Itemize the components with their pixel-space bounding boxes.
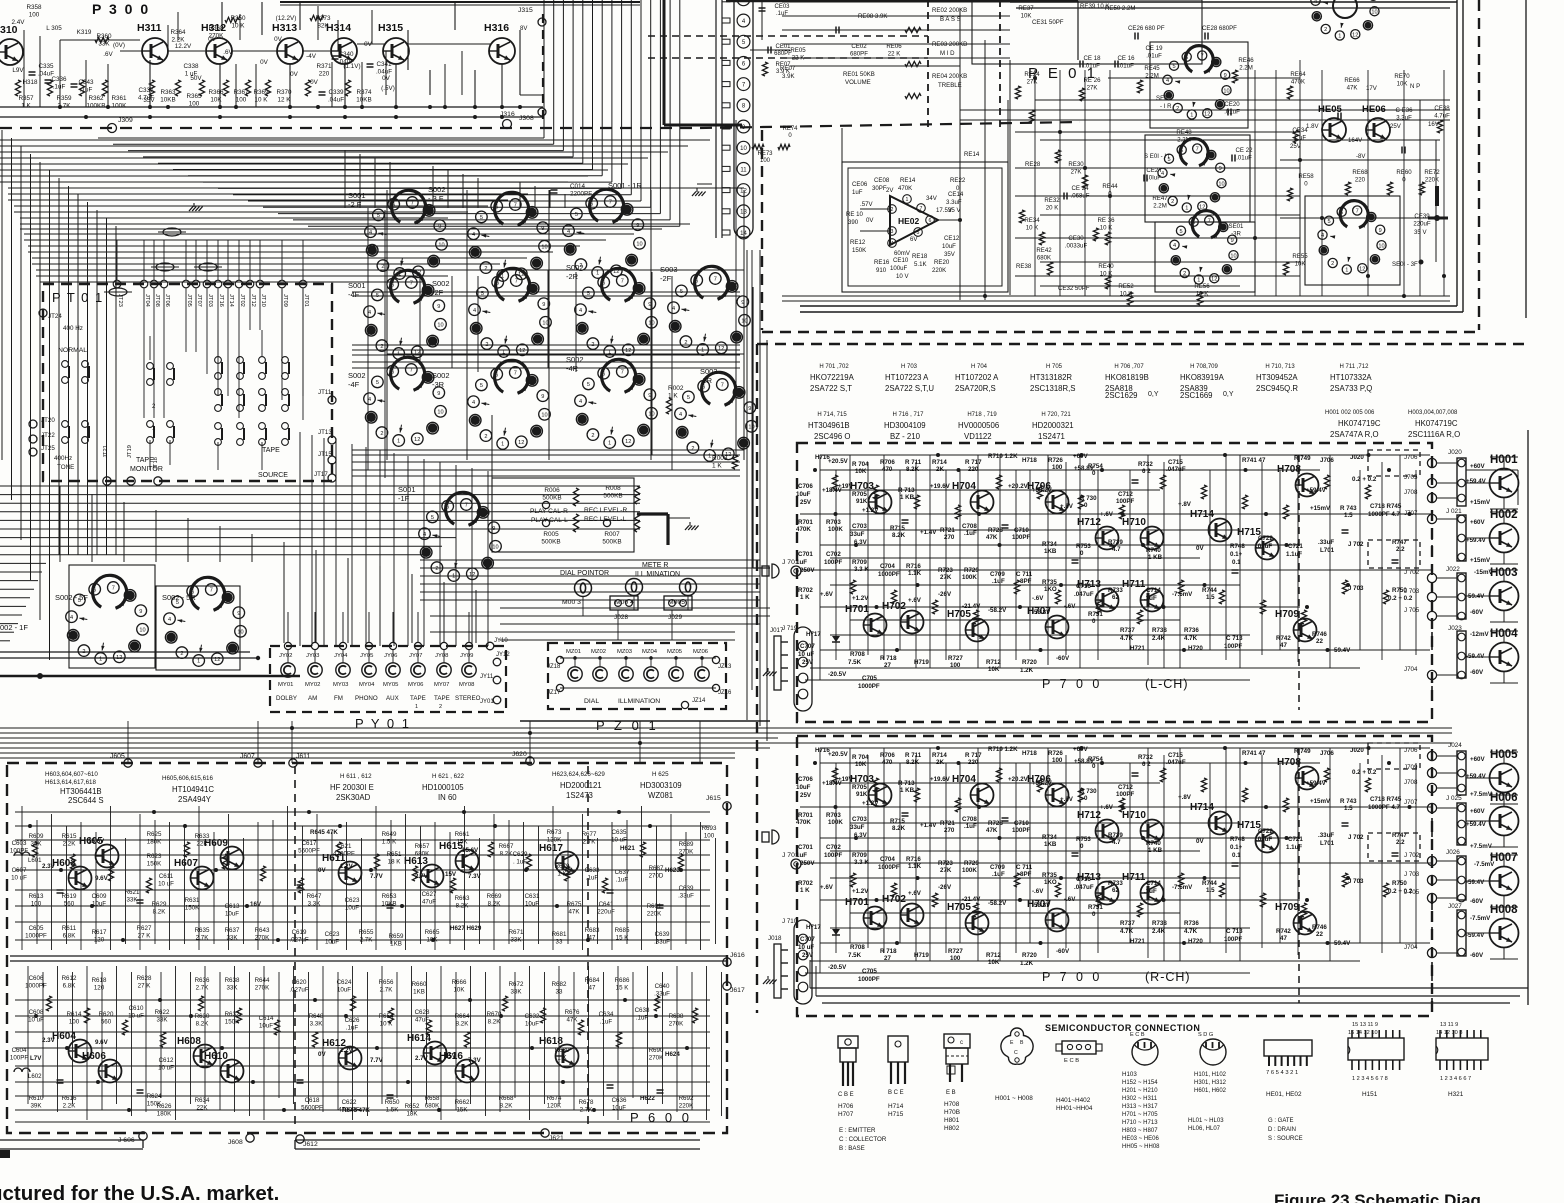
svg-text:C712: C712 (1118, 491, 1133, 498)
transistor H708 (L-CH) (1277, 464, 1319, 497)
svg-text:2.4V: 2.4V (12, 19, 26, 26)
svg-text:12: 12 (625, 439, 631, 445)
wire bold rec level (637, 514, 699, 545)
svg-text:.047uF: .047uF (1166, 466, 1186, 473)
svg-text:0V: 0V (382, 75, 391, 82)
svg-text:R636: R636 (195, 977, 210, 984)
svg-text:.04uF: .04uF (328, 97, 344, 104)
svg-text:1S2471: 1S2471 (1038, 432, 1065, 441)
connector JY10 (486, 638, 508, 650)
svg-text:R720: R720 (1022, 952, 1037, 959)
svg-text:100: 100 (1052, 464, 1063, 471)
svg-text:HT104941C: HT104941C (172, 785, 214, 794)
svg-text:R702: R702 (798, 880, 813, 887)
svg-text:J 705: J 705 (1404, 607, 1420, 614)
svg-text:R630: R630 (195, 1013, 210, 1020)
svg-text:47: 47 (1280, 642, 1287, 649)
svg-text:+59.4V: +59.4V (1466, 478, 1487, 485)
svg-text:.047uF: .047uF (1074, 591, 1094, 598)
svg-text:C638: C638 (635, 1007, 650, 1014)
transistor H710 (L-CH) (1122, 517, 1164, 550)
svg-text:8.2K: 8.2K (488, 1018, 502, 1025)
svg-text:CE12: CE12 (944, 235, 960, 242)
connector JT13 (318, 429, 336, 444)
svg-text:TAPE: TAPE (262, 447, 280, 454)
svg-text:10K: 10K (453, 986, 465, 993)
svg-text:R653: R653 (382, 893, 397, 900)
svg-text:JT18: JT18 (153, 457, 159, 470)
svg-text:-26V: -26V (938, 591, 952, 598)
svg-text:500KB: 500KB (602, 539, 621, 546)
svg-text:4: 4 (891, 241, 894, 247)
svg-text:MY08: MY08 (459, 682, 475, 688)
connector J616 (723, 952, 745, 966)
svg-text:C619: C619 (292, 929, 307, 936)
svg-text:33K: 33K (156, 1016, 168, 1023)
svg-text:R726: R726 (1048, 750, 1063, 757)
svg-text:J708: J708 (1404, 779, 1418, 786)
svg-text:R678: R678 (579, 1099, 594, 1106)
svg-text:R666: R666 (452, 979, 467, 986)
svg-text:C705: C705 (862, 675, 877, 682)
svg-text:7.5K: 7.5K (848, 659, 862, 666)
svg-text:H313: H313 (272, 22, 297, 34)
svg-text:100K: 100K (112, 103, 128, 110)
svg-text:+1.2V: +1.2V (852, 888, 869, 895)
svg-text:J612: J612 (303, 1141, 318, 1148)
svg-text:H701: H701 (845, 897, 869, 908)
transistor H711 (L-CH) (1122, 579, 1164, 612)
svg-text:7: 7 (411, 201, 414, 207)
svg-text:RE07: RE07 (780, 65, 796, 72)
svg-text:JZ14: JZ14 (692, 698, 706, 704)
svg-text:100: 100 (29, 12, 40, 19)
svg-text:H603,604,607~610: H603,604,607~610 (45, 771, 98, 778)
svg-text:2.7V: 2.7V (415, 873, 429, 880)
svg-text:R618: R618 (92, 977, 107, 984)
svg-text:35 V: 35 V (1414, 229, 1427, 236)
svg-text:H718 , 719: H718 , 719 (967, 412, 997, 418)
svg-text:C639: C639 (679, 885, 694, 892)
svg-text:JY03: JY03 (306, 653, 320, 659)
svg-text:R005: R005 (543, 531, 559, 538)
svg-text:J 702: J 702 (1404, 569, 1420, 576)
svg-text:H719: H719 (914, 659, 929, 666)
svg-text:10K: 10K (210, 97, 222, 104)
svg-text:J 702: J 702 (1348, 834, 1364, 841)
svg-text:CE26 680 PF: CE26 680 PF (1128, 25, 1165, 32)
svg-text:H701 ~ H705: H701 ~ H705 (1122, 1112, 1158, 1118)
svg-text:H201 ~ H210: H201 ~ H210 (1122, 1088, 1158, 1094)
svg-text:TONE: TONE (57, 464, 74, 471)
connector JZ14 (681, 698, 706, 709)
svg-text:RE06: RE06 (886, 43, 902, 50)
svg-text:S D G: S D G (1198, 1032, 1213, 1038)
svg-text:5: 5 (1179, 229, 1182, 235)
svg-text:C621: C621 (337, 843, 352, 850)
svg-text:HD1000105: HD1000105 (422, 783, 464, 792)
svg-text:R706: R706 (880, 459, 895, 466)
svg-text:.027uF: .027uF (289, 986, 308, 993)
svg-text:HE01, HE02: HE01, HE02 (1266, 1091, 1302, 1098)
svg-text:H 704: H 704 (971, 364, 988, 370)
power transistor H007 (1490, 852, 1519, 896)
svg-text:C640: C640 (655, 983, 670, 990)
svg-text:JZ18: JZ18 (547, 664, 561, 670)
svg-text:4.7K: 4.7K (1184, 928, 1198, 935)
label PT01 (52, 290, 104, 305)
svg-text:4: 4 (472, 232, 475, 238)
labels play cal rec level (530, 507, 627, 524)
svg-text:J 703: J 703 (1348, 585, 1364, 592)
svg-text:C604: C604 (12, 1047, 27, 1054)
svg-text:TAPE: TAPE (136, 457, 154, 464)
svg-text:R625: R625 (147, 831, 162, 838)
HE02 labels (846, 151, 980, 280)
svg-text:-7.5mV: -7.5mV (1172, 884, 1193, 891)
svg-text:R688: R688 (669, 1013, 684, 1020)
connector J620 (512, 751, 534, 765)
svg-text:H719: H719 (914, 952, 929, 959)
svg-text:R 743: R 743 (1340, 505, 1357, 512)
svg-text:C715: C715 (1168, 459, 1183, 466)
svg-text:+60V: +60V (1073, 453, 1088, 460)
svg-text:-60V: -60V (1470, 609, 1484, 616)
connector J701 (R-CH) (782, 852, 801, 869)
svg-text:R 713: R 713 (898, 780, 915, 787)
svg-text:R729: R729 (964, 567, 979, 574)
svg-text:H302 ~ H311: H302 ~ H311 (1122, 1096, 1158, 1102)
svg-text:.33uF: .33uF (1318, 539, 1334, 546)
svg-text:C715: C715 (1168, 752, 1183, 759)
svg-text:-58.2V: -58.2V (988, 900, 1007, 907)
svg-text:2SA747A R,O: 2SA747A R,O (1330, 430, 1379, 439)
svg-text:H 720, 721: H 720, 721 (1041, 412, 1071, 418)
transistor H714 (L-CH) (1190, 509, 1232, 542)
svg-text:7: 7 (1208, 219, 1211, 225)
svg-text:-60V: -60V (1056, 948, 1070, 955)
svg-text:C722: C722 (1258, 535, 1273, 542)
svg-text:4.7: 4.7 (1112, 839, 1121, 846)
svg-text:C613: C613 (225, 903, 240, 910)
svg-text:10: 10 (139, 628, 145, 634)
svg-text:K319: K319 (77, 29, 92, 36)
svg-text:SOURCE: SOURCE (258, 472, 288, 479)
transistor H713 (R-CH) (1077, 872, 1119, 905)
P600 labels lower half (10, 975, 694, 1117)
svg-text:C633: C633 (585, 867, 600, 874)
svg-text:35 V: 35 V (948, 207, 961, 214)
power transistor H002 (1490, 509, 1519, 553)
svg-text:R703: R703 (826, 812, 841, 819)
svg-text:25V: 25V (1390, 123, 1402, 130)
svg-text:H70B: H70B (944, 1109, 960, 1116)
svg-text:15.6V: 15.6V (462, 847, 479, 854)
svg-text:680K: 680K (415, 850, 430, 857)
svg-text:8V: 8V (520, 26, 527, 32)
svg-text:2SA494Y: 2SA494Y (178, 795, 212, 804)
svg-text:2SC644 S: 2SC644 S (68, 796, 104, 805)
svg-text:R651: R651 (387, 851, 402, 858)
svg-text:1: 1 (1338, 34, 1341, 40)
svg-text:HT306441B: HT306441B (60, 787, 102, 796)
svg-text:J028: J028 (614, 614, 628, 621)
svg-text:R727: R727 (948, 948, 963, 955)
PE01 pot dashed box (648, 0, 1078, 128)
svg-text:J018: J018 (768, 935, 782, 942)
rotary switch S001-1F (398, 485, 501, 581)
svg-text:+.6V: +.6V (908, 597, 922, 604)
svg-text:150K: 150K (225, 1018, 240, 1025)
svg-text:R702: R702 (798, 587, 813, 594)
svg-text:10: 10 (1230, 253, 1236, 259)
svg-text:S002: S002 (566, 355, 584, 364)
svg-text:-4F: -4F (348, 290, 360, 299)
svg-text:HK074719C: HK074719C (1415, 419, 1458, 428)
svg-text:H717: H717 (806, 924, 821, 931)
svg-text:4: 4 (1166, 78, 1169, 84)
svg-text:J620: J620 (512, 751, 527, 758)
svg-text:.027uF: .027uF (289, 936, 308, 943)
transistor H605 (79, 836, 119, 868)
svg-text:5: 5 (376, 380, 379, 386)
svg-text:2SC1629: 2SC1629 (1105, 391, 1138, 400)
svg-text:R701: R701 (798, 519, 813, 526)
svg-text:S001 - 1R: S001 - 1R (608, 181, 642, 190)
svg-text:0.1: 0.1 (1232, 559, 1241, 566)
svg-text:HT107332A: HT107332A (1330, 373, 1372, 382)
svg-text:4: 4 (423, 532, 426, 538)
svg-text:JT11: JT11 (318, 389, 332, 396)
svg-text:15V: 15V (445, 1053, 457, 1060)
transistor H706 (R-CH) (1027, 774, 1069, 807)
svg-text:RE04 200KB: RE04 200KB (932, 73, 967, 80)
svg-text:+59.4V: +59.4V (1466, 773, 1487, 780)
rotary switch S001-4F (348, 270, 446, 359)
svg-text:JT15: JT15 (318, 451, 332, 458)
svg-text:1: 1 (452, 574, 455, 580)
svg-text:.6V: .6V (103, 51, 113, 58)
connector JZ16 (712, 684, 732, 696)
svg-text:10: 10 (1371, 9, 1377, 15)
svg-text:C716: C716 (1076, 876, 1091, 883)
svg-text:H 710, 713: H 710, 713 (1265, 364, 1295, 370)
svg-text:560: 560 (101, 1018, 112, 1025)
svg-text:5600PF: 5600PF (301, 1104, 323, 1111)
transistor H316 (484, 22, 515, 64)
svg-text:8PF: 8PF (1020, 578, 1032, 585)
svg-text:270: 270 (944, 534, 955, 541)
svg-text:HE02: HE02 (898, 216, 920, 226)
svg-text:R006: R006 (544, 487, 560, 494)
svg-text:17V: 17V (1366, 85, 1378, 92)
svg-text:H318: H318 (22, 79, 38, 86)
rotary SE01-1F (1158, 139, 1226, 212)
svg-text:8.2K: 8.2K (500, 1102, 514, 1109)
svg-text:2: 2 (891, 207, 894, 213)
rotary switch S002-5F (partial) (55, 575, 148, 664)
svg-text:R739: R739 (1108, 832, 1123, 839)
svg-text:10K: 10K (988, 666, 1000, 673)
svg-text:C705: C705 (862, 968, 877, 975)
svg-text:E C B: E C B (1064, 1058, 1079, 1064)
svg-text:J608: J608 (228, 1139, 243, 1146)
svg-text:100PF: 100PF (1012, 827, 1030, 834)
svg-text:H601, H602: H601, H602 (1194, 1088, 1227, 1094)
svg-text:0V: 0V (364, 41, 373, 48)
svg-text:12 K: 12 K (278, 97, 292, 104)
svg-text:HD3004109: HD3004109 (884, 421, 926, 430)
svg-text:HE03 ~ HE06: HE03 ~ HE06 (1122, 1136, 1160, 1142)
svg-text:S002: S002 (428, 185, 446, 194)
svg-text:220: 220 (319, 71, 330, 78)
svg-text:R738: R738 (1152, 627, 1167, 634)
svg-text:RE14: RE14 (900, 177, 916, 184)
svg-text:0.2 + 0.2: 0.2 + 0.2 (1388, 595, 1413, 602)
svg-text:1000PF: 1000PF (858, 683, 880, 690)
connector J018 bar (763, 935, 788, 998)
svg-text:2.2: 2.2 (1396, 839, 1405, 846)
svg-text:.1uF: .1uF (616, 876, 629, 883)
labels J020 J021 J022 J023 (1446, 449, 1462, 632)
svg-text:9: 9 (437, 304, 440, 310)
svg-text:.047uF: .047uF (1074, 884, 1094, 891)
svg-text:H311: H311 (137, 22, 162, 34)
svg-text:1KB: 1KB (390, 940, 402, 947)
svg-text:.1uF: .1uF (636, 1014, 649, 1021)
svg-text:R715: R715 (890, 525, 905, 532)
svg-text:CE2 I: CE2 I (1146, 167, 1162, 174)
connector J617 (723, 982, 745, 994)
svg-text:J023: J023 (1448, 625, 1462, 632)
svg-text:1: 1 (1197, 278, 1200, 284)
svg-text:13 11 9: 13 11 9 (1440, 1022, 1458, 1028)
svg-text:C704: C704 (880, 856, 895, 863)
svg-text:9: 9 (748, 406, 751, 412)
svg-text:22 K: 22 K (888, 50, 901, 57)
svg-text:H705: H705 (947, 609, 971, 620)
svg-text:H314: H314 (326, 22, 351, 34)
svg-text:H608: H608 (177, 1036, 201, 1047)
svg-text:ILL MINATION: ILL MINATION (635, 571, 680, 578)
svg-text:J 703: J 703 (1404, 871, 1420, 878)
svg-text:CE01: CE01 (775, 44, 791, 50)
svg-text:RE68: RE68 (1352, 169, 1368, 176)
svg-text:CE39: CE39 (1414, 213, 1430, 220)
svg-text:10: 10 (1378, 243, 1384, 249)
svg-text:1: 1 (608, 441, 611, 447)
svg-text:100: 100 (236, 97, 247, 104)
svg-text:PHONO: PHONO (355, 695, 378, 702)
inductor L601 (14, 852, 42, 864)
svg-text:H707: H707 (838, 1111, 854, 1118)
transistor H613 (404, 856, 444, 888)
svg-text:C631: C631 (525, 893, 540, 900)
svg-text:4: 4 (1161, 171, 1164, 177)
svg-text:R652: R652 (405, 1103, 420, 1110)
block PE01 outer borders (762, 0, 1526, 332)
block PZ01 border (548, 643, 726, 709)
svg-text:S002: S002 (348, 371, 366, 380)
svg-text:4: 4 (579, 399, 582, 405)
svg-text:.1uF: .1uF (992, 578, 1005, 585)
svg-text:.33uF: .33uF (1318, 832, 1334, 839)
svg-text:R643: R643 (255, 927, 270, 934)
transistor H704 (R-CH) (952, 774, 994, 807)
svg-text:10KB: 10KB (160, 97, 175, 104)
svg-text:H705: H705 (947, 902, 971, 913)
P700 (R-CH) dashed internals (1299, 743, 1420, 1003)
svg-text:47K: 47K (986, 827, 998, 834)
svg-text:JY08: JY08 (435, 653, 449, 659)
svg-text:2.4K: 2.4K (1152, 928, 1166, 935)
svg-text:R712: R712 (986, 659, 1001, 666)
svg-text:HV0000506: HV0000506 (958, 421, 999, 430)
svg-text:+59.4V: +59.4V (1306, 487, 1327, 494)
svg-text:100K: 100K (962, 574, 977, 581)
svg-text:2.7K: 2.7K (58, 103, 72, 110)
transistor H707 (L-CH) (1027, 606, 1069, 639)
svg-text:S002 - 5F: S002 - 5F (55, 593, 88, 602)
transistor H618 (539, 1036, 579, 1068)
rotary switch S003-2F (660, 265, 750, 355)
svg-text:1 K: 1 K (800, 594, 810, 601)
rotary SE01-3R (1170, 211, 1238, 284)
connector J309 (108, 117, 133, 133)
svg-text:R746: R746 (1312, 631, 1327, 638)
package TO-220F H708 H709 H801 H802 (944, 1034, 970, 1132)
svg-text:(1.1V): (1.1V) (343, 63, 360, 70)
svg-text:JT21: JT21 (103, 445, 109, 458)
svg-text:RE40: RE40 (1098, 263, 1114, 270)
svg-text:250V: 250V (800, 860, 815, 867)
svg-text:12: 12 (214, 657, 220, 663)
svg-text:H803 ~ H807: H803 ~ H807 (1122, 1128, 1158, 1134)
label P600 (630, 1110, 692, 1125)
svg-text:R727: R727 (948, 655, 963, 662)
svg-text:P 3 0 0: P 3 0 0 (92, 1, 150, 17)
svg-text:47: 47 (1280, 935, 1287, 942)
svg-text:2.2M: 2.2M (1239, 64, 1253, 71)
connector J315 (518, 7, 546, 32)
svg-text:270D: 270D (649, 872, 664, 879)
svg-text:R720: R720 (1022, 659, 1037, 666)
svg-text:C620: C620 (292, 979, 307, 986)
svg-text:H 703: H 703 (901, 364, 918, 370)
svg-text:R634: R634 (195, 1097, 210, 1104)
svg-text:H710: H710 (1122, 810, 1146, 821)
svg-text:R363: R363 (160, 89, 176, 96)
svg-text:FM: FM (334, 695, 343, 702)
svg-text:7: 7 (621, 279, 624, 285)
wire nested returns under R-CH (810, 960, 1528, 1003)
svg-text:C722: C722 (1258, 828, 1273, 835)
svg-text:0: 0 (1080, 843, 1084, 850)
transistor H311 (137, 22, 168, 64)
svg-text:R739: R739 (1108, 539, 1123, 546)
svg-text:8.2K: 8.2K (488, 900, 502, 907)
svg-text:1.2K: 1.2K (1020, 960, 1034, 967)
svg-text:0V: 0V (1196, 838, 1204, 845)
svg-text:.1uF: .1uF (964, 530, 977, 537)
svg-text:-60V: -60V (1470, 669, 1484, 676)
svg-text:S001: S001 (348, 191, 366, 200)
svg-text:1000PF: 1000PF (25, 982, 47, 989)
svg-text:HD2000321: HD2000321 (1032, 421, 1074, 430)
svg-text:R703: R703 (826, 519, 841, 526)
svg-text:.1uF: .1uF (53, 84, 66, 91)
capacitor C014 (551, 183, 593, 198)
